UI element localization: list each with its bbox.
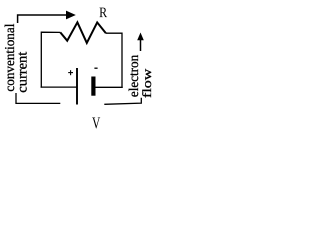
battery V: positive plate (long thin)	[76, 68, 78, 105]
minus sign	[94, 67, 97, 69]
battery V: negative plate (short thick)	[91, 77, 95, 96]
wire: top-right segment + right vertical	[106, 33, 122, 88]
svg-text:R: R	[99, 5, 107, 21]
svg-text:V: V	[92, 113, 100, 132]
svg-text:electron: electron	[126, 55, 141, 98]
right callout bracket	[104, 98, 141, 105]
wire: bottom right (battery - to right wire)	[96, 86, 123, 88]
svg-text:current: current	[16, 52, 31, 93]
electron flow arrow (up)	[137, 33, 144, 52]
left callout bracket	[16, 93, 60, 103]
plus sign	[68, 70, 73, 75]
conventional current direction arrow (top)	[18, 11, 76, 23]
svg-text:flow: flow	[140, 69, 154, 98]
wire: left vertical + top-left segment	[41, 32, 60, 87]
resistor R	[60, 22, 106, 43]
wire: bottom left (left wire to battery +)	[41, 86, 77, 88]
